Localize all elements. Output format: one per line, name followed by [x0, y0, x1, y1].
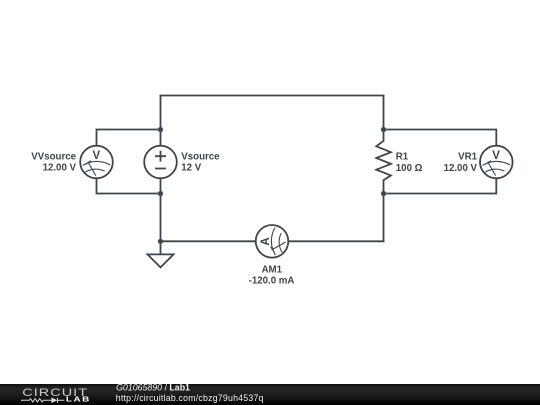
wire left vertical (top rail to Vsource top)	[160, 96, 162, 146]
node junction right mid	[381, 191, 386, 196]
wire bottom rail left segment	[161, 240, 256, 242]
wire R1 bottom to bottom rail corner	[383, 180, 385, 241]
svg-text:R1: R1	[396, 151, 409, 162]
svg-text:LAB: LAB	[66, 395, 91, 404]
resistor R1	[376, 141, 391, 181]
svg-text:G01065890 / Lab1: G01065890 / Lab1	[116, 383, 190, 393]
svg-text:12.00 V: 12.00 V	[444, 163, 478, 174]
svg-text:100 Ω: 100 Ω	[396, 163, 423, 174]
wire top rail	[161, 95, 384, 97]
node junction left top	[158, 127, 163, 132]
logo resistor-diode glyph	[21, 398, 64, 403]
svg-text:A: A	[260, 237, 272, 245]
svg-text:Vsource: Vsource	[181, 152, 220, 163]
footer bar	[0, 384, 540, 405]
voltage source Vsource V1	[144, 146, 177, 179]
svg-text:-120.0 mA: -120.0 mA	[249, 275, 295, 286]
svg-text:V: V	[492, 150, 500, 162]
node junction ground	[158, 239, 163, 244]
wire VVsource bottom branch	[97, 178, 161, 193]
voltmeter VR1	[480, 146, 513, 179]
wire VVsource top branch	[97, 130, 161, 146]
node junction left mid	[158, 191, 163, 196]
svg-text:12 V: 12 V	[181, 163, 201, 174]
ammeter AM1	[256, 225, 289, 258]
wire bottom rail right segment	[288, 240, 383, 242]
svg-text:12.00 V: 12.00 V	[43, 163, 77, 174]
svg-text:VR1: VR1	[458, 151, 477, 162]
ground	[148, 254, 174, 267]
wire VR1 top branch	[384, 130, 497, 146]
svg-text:VVsource: VVsource	[31, 152, 76, 163]
voltmeter VVsource	[80, 146, 113, 179]
svg-text:V: V	[92, 150, 100, 162]
wire VR1 bottom branch	[384, 178, 497, 193]
svg-text:AM1: AM1	[262, 264, 283, 275]
node junction right top	[381, 127, 386, 132]
wire Vsource bottom to ground	[160, 178, 162, 254]
svg-text:http://circuitlab.com/cbzg79uh: http://circuitlab.com/cbzg79uh4537q	[116, 393, 264, 403]
wire right vertical (top rail to R1 top)	[383, 96, 385, 141]
